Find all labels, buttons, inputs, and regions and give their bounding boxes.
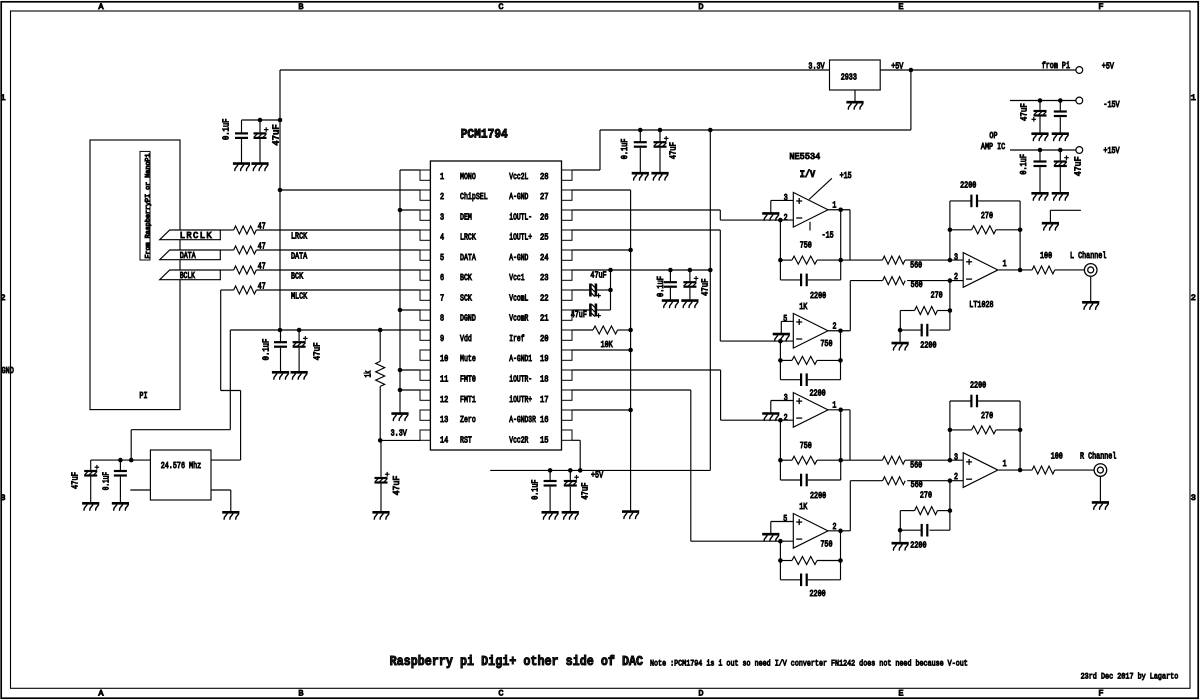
svg-text:0.1uF: 0.1uF (222, 119, 232, 140)
svg-text:22: 22 (540, 293, 549, 303)
svg-text:D: D (698, 2, 703, 12)
svg-text:270: 270 (981, 211, 993, 221)
svg-text:A: A (98, 2, 104, 12)
svg-text:21: 21 (540, 314, 549, 324)
svg-text:iOUTR-: iOUTR- (509, 375, 532, 385)
svg-text:1: 1 (1003, 259, 1007, 269)
svg-text:2: 2 (954, 272, 958, 282)
svg-text:270: 270 (981, 411, 993, 421)
svg-text:0.1uF: 0.1uF (531, 480, 541, 500)
svg-text:1: 1 (832, 200, 836, 210)
svg-text:3: 3 (440, 212, 444, 222)
svg-text:Note :PCM1794 is i out so need: Note :PCM1794 is i out so need I/V conve… (650, 658, 968, 668)
svg-text:+15V: +15V (1103, 146, 1120, 156)
svg-text:R Channel: R Channel (1080, 451, 1116, 461)
svg-text:24: 24 (540, 253, 549, 263)
svg-text:23rd Dec 2017 by Lagarto: 23rd Dec 2017 by Lagarto (1081, 672, 1179, 682)
svg-text:10: 10 (440, 354, 448, 364)
svg-text:VcomR: VcomR (509, 314, 529, 324)
svg-text:4: 4 (440, 233, 444, 243)
svg-text:From RaspberryPI or NanoPi: From RaspberryPI or NanoPi (144, 154, 152, 259)
svg-text:LT1028: LT1028 (969, 300, 993, 310)
svg-text:47uF: 47uF (71, 472, 81, 489)
svg-text:560: 560 (911, 280, 923, 290)
svg-text:47uF: 47uF (313, 342, 323, 360)
svg-text:47uF: 47uF (1019, 103, 1029, 121)
svg-text:A-GND: A-GND (509, 192, 528, 202)
svg-text:47: 47 (258, 281, 266, 291)
svg-text:MLCK: MLCK (291, 291, 308, 301)
svg-text:Iref: Iref (509, 334, 524, 344)
svg-text:1K: 1K (799, 502, 808, 512)
svg-text:47uF: 47uF (700, 279, 710, 297)
svg-text:2200: 2200 (810, 389, 826, 399)
svg-text:+15: +15 (840, 171, 852, 181)
svg-text:FMT0: FMT0 (460, 375, 476, 385)
svg-text:A-GND: A-GND (509, 253, 528, 263)
svg-text:3: 3 (0, 493, 5, 503)
svg-text:2: 2 (0, 293, 5, 303)
svg-text:47uF: 47uF (668, 142, 678, 159)
svg-text:9: 9 (440, 334, 444, 344)
svg-text:47uF: 47uF (590, 270, 606, 280)
svg-text:I/V: I/V (800, 169, 816, 181)
svg-text:Mute: Mute (460, 354, 476, 364)
svg-text:LRCK: LRCK (291, 231, 308, 241)
svg-text:750: 750 (800, 441, 812, 451)
svg-text:2: 2 (440, 192, 444, 202)
svg-text:Vcc2L: Vcc2L (509, 172, 528, 182)
svg-text:3: 3 (1191, 493, 1196, 503)
svg-text:NE5534: NE5534 (789, 152, 820, 162)
svg-text:16: 16 (540, 415, 549, 425)
svg-text:2200: 2200 (960, 181, 976, 191)
svg-text:DGND: DGND (460, 314, 476, 324)
svg-text:B: B (298, 689, 303, 699)
svg-text:2200: 2200 (810, 291, 826, 301)
svg-text:13: 13 (440, 415, 448, 425)
svg-text:iOUTR+: iOUTR+ (509, 395, 532, 405)
svg-text:560: 560 (910, 460, 922, 470)
svg-text:47: 47 (258, 221, 266, 231)
svg-text:D: D (698, 689, 703, 699)
svg-text:FMT1: FMT1 (460, 395, 476, 405)
svg-text:2: 2 (954, 472, 958, 482)
svg-text:1: 1 (832, 401, 836, 411)
svg-text:28: 28 (540, 172, 549, 182)
svg-text:47: 47 (258, 241, 266, 251)
svg-text:2: 2 (784, 213, 788, 223)
svg-text:0.1uF: 0.1uF (261, 339, 271, 361)
svg-text:DEM: DEM (460, 212, 472, 222)
svg-text:47: 47 (258, 261, 266, 271)
svg-text:750: 750 (820, 539, 832, 549)
svg-text:1k: 1k (363, 370, 373, 377)
svg-text:7: 7 (440, 293, 444, 303)
svg-text:5: 5 (783, 514, 787, 524)
svg-text:1: 1 (0, 93, 5, 103)
svg-text:DATA: DATA (291, 251, 308, 261)
svg-text:Zero: Zero (460, 415, 476, 425)
svg-text:2200: 2200 (810, 491, 826, 501)
svg-text:14: 14 (440, 435, 448, 445)
svg-text:LRCLK: LRCLK (180, 231, 213, 241)
svg-text:L Channel: L Channel (1070, 251, 1106, 261)
svg-text:iOUTL+: iOUTL+ (509, 233, 532, 243)
svg-text:2200: 2200 (970, 381, 986, 391)
svg-text:-15V: -15V (1103, 100, 1120, 110)
svg-text:A-GND3R: A-GND3R (509, 415, 536, 425)
svg-text:C: C (498, 689, 503, 699)
svg-text:OP: OP (989, 131, 997, 141)
svg-text:Vcc2R: Vcc2R (509, 435, 529, 445)
svg-text:Vcc1: Vcc1 (509, 273, 524, 283)
svg-text:1: 1 (1191, 93, 1196, 103)
svg-text:47uF: 47uF (392, 476, 402, 496)
svg-text:DATA: DATA (460, 253, 476, 263)
svg-text:750: 750 (800, 241, 812, 251)
svg-text:20: 20 (540, 334, 549, 344)
svg-text:1: 1 (440, 172, 444, 182)
svg-text:E: E (898, 689, 903, 699)
svg-text:from Pi: from Pi (1042, 61, 1070, 71)
svg-text:A-GND1: A-GND1 (509, 354, 532, 364)
svg-text:Vdd: Vdd (460, 334, 472, 344)
svg-text:19: 19 (540, 354, 549, 364)
svg-text:3: 3 (784, 393, 788, 403)
svg-text:12: 12 (440, 395, 448, 405)
svg-text:27: 27 (540, 192, 549, 202)
svg-text:1K: 1K (799, 302, 808, 312)
svg-text:5: 5 (440, 253, 444, 263)
svg-text:E: E (898, 2, 903, 12)
svg-text:DATA: DATA (180, 251, 197, 261)
svg-text:24.576 Mhz: 24.576 Mhz (161, 461, 202, 471)
svg-text:+5V: +5V (591, 471, 604, 481)
svg-text:750: 750 (820, 339, 832, 349)
svg-text:26: 26 (540, 212, 549, 222)
svg-text:A: A (98, 689, 104, 699)
svg-text:560: 560 (910, 260, 922, 270)
svg-text:PCM1794: PCM1794 (461, 127, 508, 142)
svg-text:15: 15 (540, 435, 549, 445)
svg-text:GND: GND (2, 366, 14, 376)
svg-text:BCK: BCK (291, 271, 304, 281)
svg-text:F: F (1098, 2, 1103, 12)
svg-text:2200: 2200 (910, 541, 926, 551)
svg-text:BCK: BCK (460, 273, 472, 283)
svg-text:0.1uF: 0.1uF (656, 276, 666, 297)
svg-text:SCK: SCK (460, 293, 472, 303)
svg-text:100: 100 (1040, 251, 1052, 261)
svg-text:ChipSEL: ChipSEL (460, 192, 488, 202)
svg-text:10K: 10K (601, 340, 614, 350)
svg-text:560: 560 (911, 480, 923, 490)
svg-text:100: 100 (1051, 451, 1063, 461)
svg-text:3.3V: 3.3V (808, 61, 825, 71)
svg-text:0.1uF: 0.1uF (102, 472, 112, 490)
svg-text:23: 23 (540, 273, 549, 283)
svg-text:6: 6 (440, 273, 444, 283)
svg-text:2: 2 (784, 413, 788, 423)
svg-text:C: C (498, 2, 503, 12)
svg-text:VcomL: VcomL (509, 293, 528, 303)
svg-text:0.1uF: 0.1uF (1019, 154, 1029, 175)
svg-text:3.3V: 3.3V (391, 429, 408, 439)
svg-text:-15: -15 (822, 230, 834, 240)
svg-text:2: 2 (833, 322, 837, 332)
svg-text:PI: PI (139, 391, 147, 401)
svg-text:B: B (298, 2, 303, 12)
svg-text:25: 25 (540, 233, 549, 243)
svg-text:MONO: MONO (460, 172, 476, 182)
svg-text:Raspberry pi Digi+ other side: Raspberry pi Digi+ other side of DAC (390, 655, 643, 670)
svg-text:8: 8 (440, 314, 444, 324)
svg-text:47uF: 47uF (571, 310, 587, 320)
svg-text:AMP IC: AMP IC (981, 142, 1005, 152)
svg-text:270: 270 (920, 491, 932, 501)
svg-text:17: 17 (540, 395, 549, 405)
svg-text:+5V: +5V (1102, 62, 1115, 72)
svg-text:2: 2 (1191, 293, 1196, 303)
svg-text:LRCK: LRCK (460, 233, 476, 243)
svg-text:18: 18 (540, 375, 549, 385)
svg-text:1: 1 (1003, 459, 1007, 469)
svg-text:2200: 2200 (810, 589, 826, 599)
svg-text:iOUTL-: iOUTL- (509, 212, 532, 222)
svg-text:3: 3 (784, 193, 788, 203)
svg-text:2200: 2200 (920, 341, 936, 351)
svg-text:11: 11 (440, 375, 448, 385)
svg-text:2: 2 (833, 522, 837, 532)
svg-text:RST: RST (460, 435, 472, 445)
svg-text:3: 3 (954, 453, 958, 463)
svg-text:47uF: 47uF (1073, 157, 1083, 177)
svg-text:F: F (1098, 689, 1103, 699)
svg-text:BCLK: BCLK (180, 271, 196, 281)
svg-text:270: 270 (931, 290, 943, 300)
svg-text:0.1uF: 0.1uF (620, 139, 630, 160)
svg-text:47uF: 47uF (272, 124, 282, 145)
svg-text:5: 5 (783, 314, 787, 324)
svg-text:47uF: 47uF (581, 483, 591, 500)
svg-text:3: 3 (954, 253, 958, 263)
svg-text:2933: 2933 (841, 73, 857, 83)
